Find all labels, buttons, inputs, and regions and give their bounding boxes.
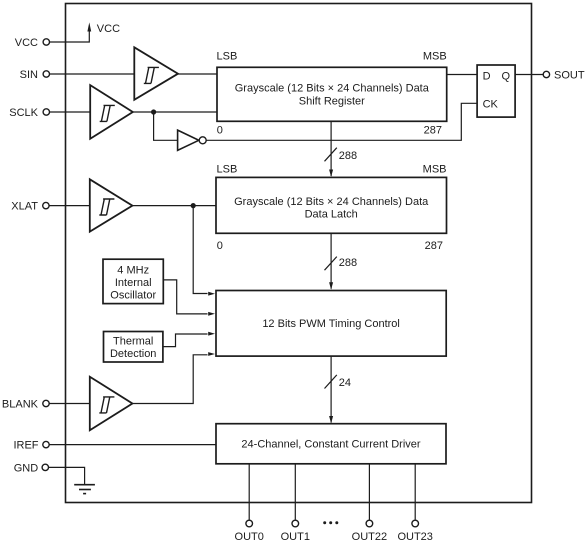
power symbol VCC <box>87 22 120 34</box>
svg-text:24-Channel, Constant Current D: 24-Channel, Constant Current Driver <box>241 439 420 451</box>
svg-text:12 Bits PWM Timing Control: 12 Bits PWM Timing Control <box>262 318 400 330</box>
svg-text:LSB: LSB <box>217 51 238 63</box>
bus shift register to data latch <box>325 121 337 177</box>
svg-text:Shift Register: Shift Register <box>299 96 365 108</box>
junction SCLK node <box>151 109 156 114</box>
svg-text:4 MHz: 4 MHz <box>117 265 149 277</box>
svg-text:Thermal: Thermal <box>113 336 153 348</box>
svg-text:OUT22: OUT22 <box>352 531 387 543</box>
wire XLAT node to PWM control <box>193 206 207 294</box>
wire XLAT pin to buffer <box>49 205 90 207</box>
wire VCC pin to VCC rail <box>50 31 90 42</box>
wire SCLK buffer to shift register <box>133 111 217 113</box>
svg-text:BLANK: BLANK <box>2 398 39 410</box>
svg-text:VCC: VCC <box>97 23 120 35</box>
outer device boundary box <box>66 4 532 503</box>
data latch block <box>216 177 447 233</box>
pin SCLK <box>9 107 49 119</box>
svg-text:Oscillator: Oscillator <box>110 290 156 302</box>
svg-text:288: 288 <box>339 150 357 162</box>
bus PWM control to current driver <box>325 356 337 423</box>
svg-text:IREF: IREF <box>13 440 38 452</box>
oscillator block <box>103 259 163 303</box>
ground symbol <box>74 485 95 494</box>
pin BLANK <box>2 398 49 410</box>
junction XLAT node <box>191 203 196 208</box>
wire output 0 <box>248 464 250 520</box>
PWM timing control block <box>216 291 446 357</box>
svg-text:Internal: Internal <box>115 277 152 289</box>
arrowhead XLAT into PWM <box>208 292 215 296</box>
svg-text:LSB: LSB <box>217 164 238 176</box>
thermal detection block <box>104 332 163 363</box>
svg-text:OUT23: OUT23 <box>397 531 432 543</box>
svg-text:GND: GND <box>14 462 39 474</box>
svg-text:Q: Q <box>502 71 511 83</box>
svg-text:SOUT: SOUT <box>554 69 585 81</box>
pin OUT1 <box>281 520 310 543</box>
svg-text:Detection: Detection <box>110 348 156 360</box>
arrowhead thermal into PWM <box>208 332 215 336</box>
wire GND to ground <box>49 467 85 484</box>
wire oscillator to PWM control <box>163 280 207 314</box>
svg-text:MSB: MSB <box>423 51 447 63</box>
wire thermal to PWM control <box>163 334 208 347</box>
svg-text:OUT1: OUT1 <box>281 531 310 543</box>
svg-text:Grayscale (12 Bits × 24 Channe: Grayscale (12 Bits × 24 Channels) Data <box>235 83 430 95</box>
wire inverter to CK <box>206 103 477 140</box>
svg-text:287: 287 <box>424 125 442 137</box>
svg-text:0: 0 <box>217 240 223 252</box>
svg-text:288: 288 <box>339 257 357 269</box>
svg-text:XLAT: XLAT <box>11 201 38 213</box>
svg-text:24: 24 <box>339 377 351 389</box>
svg-text:Grayscale (12 Bits × 24 Channe: Grayscale (12 Bits × 24 Channels) Data <box>234 196 429 208</box>
svg-text:SIN: SIN <box>20 69 38 81</box>
schmitt buffer U-SCLK <box>90 85 133 139</box>
wire SCLK node to inverter <box>154 112 178 140</box>
pin SIN <box>20 69 50 81</box>
wire SIN buffer to shift register <box>178 73 217 75</box>
schmitt buffer U-BLANK <box>90 377 133 431</box>
svg-text:287: 287 <box>425 240 443 252</box>
wire Q to SOUT <box>515 74 543 76</box>
pin OUT22 <box>352 520 387 543</box>
pin SOUT <box>543 69 585 81</box>
inverter U-INV <box>178 130 207 150</box>
svg-text:MSB: MSB <box>423 164 447 176</box>
schmitt buffer U-XLAT <box>90 179 133 231</box>
ellipsis dots <box>323 521 338 524</box>
svg-text:D: D <box>483 71 491 83</box>
wire BLANK pin to buffer <box>49 403 89 405</box>
wire SIN pin to buffer <box>50 73 135 75</box>
pin OUT23 <box>397 520 432 543</box>
wire IREF to current driver <box>49 444 216 446</box>
svg-text:0: 0 <box>217 125 223 137</box>
bus data latch to PWM control <box>325 233 337 289</box>
wire output 22 <box>368 464 370 520</box>
wire MSB to D input <box>447 74 477 76</box>
arrowhead oscillator into PWM <box>208 312 215 316</box>
wire SCLK pin to buffer <box>50 111 90 113</box>
current driver block <box>216 424 446 464</box>
wire XLAT buffer to latch <box>132 205 216 207</box>
schmitt buffer U-SIN <box>134 47 178 100</box>
pin IREF <box>13 440 49 452</box>
shift register block <box>217 67 447 121</box>
svg-text:CK: CK <box>483 99 499 111</box>
svg-text:OUT0: OUT0 <box>235 531 264 543</box>
svg-text:VCC: VCC <box>15 37 38 49</box>
wire BLANK buffer to PWM control <box>132 355 207 404</box>
flip-flop U-DFF <box>477 65 515 117</box>
arrowhead BLANK into PWM <box>208 352 215 356</box>
pin OUT0 <box>235 520 264 543</box>
pin VCC <box>15 37 50 49</box>
pin XLAT <box>11 201 49 213</box>
pin GND <box>14 462 49 474</box>
wire output 23 <box>414 464 416 520</box>
svg-text:Data Latch: Data Latch <box>305 209 358 221</box>
svg-text:SCLK: SCLK <box>9 107 38 119</box>
wire output 1 <box>294 464 296 520</box>
